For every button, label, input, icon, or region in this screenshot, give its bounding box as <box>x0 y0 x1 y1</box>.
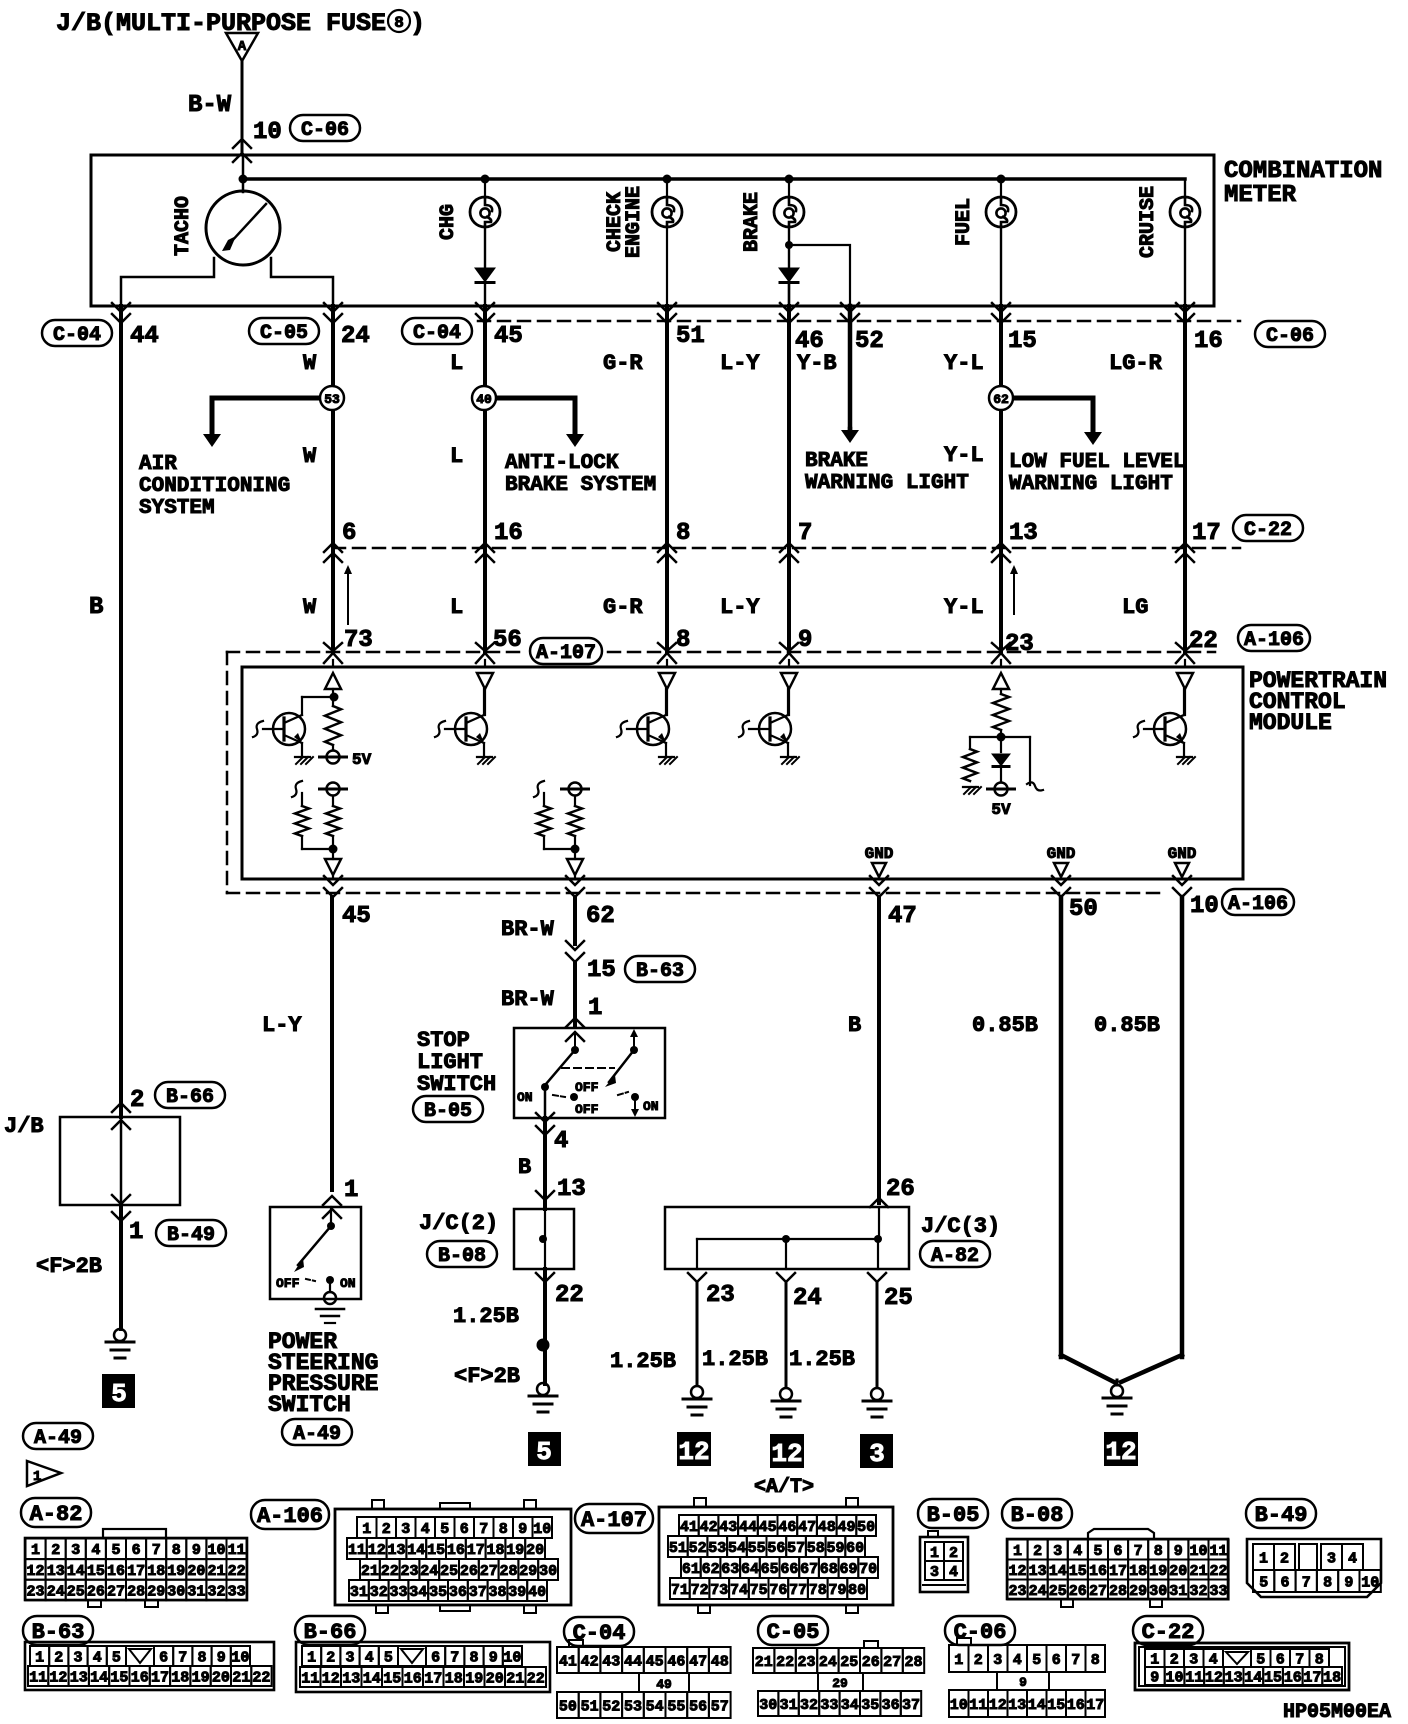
svg-text:44: 44 <box>624 1653 642 1670</box>
svg-text:65: 65 <box>761 1561 779 1578</box>
svg-text:ENGINE: ENGINE <box>623 186 646 258</box>
node bus-CHECK <box>663 175 672 184</box>
svg-text:48: 48 <box>711 1653 729 1670</box>
PCM bottom crossing pin 50 <box>1052 876 1070 885</box>
svg-text:16: 16 <box>1284 1669 1302 1686</box>
svg-text:1.25B: 1.25B <box>610 1349 676 1374</box>
svg-text:74: 74 <box>730 1582 748 1599</box>
svg-text:52: 52 <box>689 1540 707 1557</box>
svg-text:CONDITIONING: CONDITIONING <box>139 475 290 498</box>
svg-text:7: 7 <box>450 1649 459 1666</box>
svg-text:35: 35 <box>429 1584 447 1601</box>
svg-text:18: 18 <box>445 1670 463 1687</box>
svg-text:Y-B: Y-B <box>797 351 837 376</box>
svg-text:4: 4 <box>1013 1652 1022 1669</box>
svg-text:9: 9 <box>1150 1669 1159 1686</box>
svg-text:25: 25 <box>440 1563 458 1580</box>
svg-text:L: L <box>450 351 463 376</box>
transistor Q5 <box>1154 713 1186 745</box>
svg-text:B: B <box>518 1155 531 1180</box>
svg-text:60: 60 <box>846 1540 864 1557</box>
svg-text:50: 50 <box>1069 896 1098 923</box>
svg-text:26: 26 <box>460 1563 478 1580</box>
svg-text:8: 8 <box>1315 1651 1324 1668</box>
svg-text:16: 16 <box>447 1542 465 1559</box>
svg-text:22: 22 <box>776 1654 794 1671</box>
svg-text:C-06: C-06 <box>301 119 349 142</box>
svg-text:ANTI-LOCK: ANTI-LOCK <box>505 452 619 475</box>
connector C-04 pinout <box>569 1640 583 1647</box>
ground id box 5 JC2 <box>528 1432 561 1466</box>
svg-text:A-106: A-106 <box>1244 629 1304 652</box>
svg-text:ON: ON <box>340 1276 356 1291</box>
0.85B merge <box>1061 1355 1114 1382</box>
ground id box 12 a <box>677 1432 711 1466</box>
PCM input 9 triangle <box>788 660 790 666</box>
svg-text:G-R: G-R <box>603 351 643 376</box>
svg-text:55: 55 <box>667 1698 685 1715</box>
wire FUEL lamp down <box>1000 227 1002 306</box>
svg-text:15: 15 <box>1047 1697 1065 1714</box>
svg-text:19: 19 <box>192 1669 210 1686</box>
svg-text:10: 10 <box>503 1649 521 1666</box>
capsule A-107 <box>530 638 602 664</box>
svg-text:3: 3 <box>345 1649 354 1666</box>
svg-text:25: 25 <box>67 1583 85 1600</box>
connector crossing pin 52 <box>841 303 859 312</box>
switch ground <box>324 1292 336 1304</box>
svg-text:0.85B: 0.85B <box>1094 1013 1160 1038</box>
svg-text:10: 10 <box>1189 1543 1207 1560</box>
svg-text:1.25B: 1.25B <box>789 1347 855 1372</box>
svg-text:13: 13 <box>47 1563 65 1580</box>
svg-text:B-05: B-05 <box>424 1100 472 1123</box>
svg-text:J/C(3): J/C(3) <box>921 1214 1000 1239</box>
svg-text:LOW FUEL LEVEL: LOW FUEL LEVEL <box>1009 451 1185 474</box>
svg-text:62: 62 <box>586 903 615 930</box>
svg-text:45: 45 <box>646 1653 664 1670</box>
ground 24 <box>780 1388 792 1400</box>
svg-text:34: 34 <box>409 1584 427 1601</box>
stop light switch right contact <box>630 1029 638 1037</box>
svg-text:21: 21 <box>755 1654 773 1671</box>
svg-text:43: 43 <box>719 1519 737 1536</box>
A-106/A-107 crossing pin 56 <box>476 643 494 651</box>
indicator lamp CHECK <box>666 179 668 197</box>
svg-text:5: 5 <box>536 1437 552 1467</box>
svg-text:GND: GND <box>1168 845 1197 863</box>
svg-text:48: 48 <box>818 1519 836 1536</box>
svg-text:1: 1 <box>930 1545 939 1562</box>
svg-text:10: 10 <box>207 1542 225 1559</box>
connector crossing pin 15 <box>992 303 1010 312</box>
crossing pin 23 JC3 <box>688 1273 706 1282</box>
svg-text:9: 9 <box>217 1649 226 1666</box>
stop light switch left contact <box>574 1032 576 1046</box>
svg-text:28: 28 <box>904 1654 922 1671</box>
svg-text:22: 22 <box>252 1669 270 1686</box>
svg-text:W: W <box>303 595 317 620</box>
C-22 crossing pin 17 <box>1176 543 1194 552</box>
svg-text:67: 67 <box>800 1561 818 1578</box>
fuse A symbol <box>226 33 258 61</box>
ground id box 12 right <box>1104 1432 1138 1466</box>
svg-text:28: 28 <box>127 1583 145 1600</box>
svg-text:1: 1 <box>1013 1543 1022 1560</box>
svg-text:1: 1 <box>362 1521 371 1538</box>
svg-text:32: 32 <box>1189 1583 1207 1600</box>
svg-text:15: 15 <box>427 1542 445 1559</box>
svg-text:6: 6 <box>1113 1543 1122 1560</box>
svg-text:22: 22 <box>527 1670 545 1687</box>
svg-text:34: 34 <box>841 1697 859 1714</box>
svg-text:56: 56 <box>767 1540 785 1557</box>
svg-text:19: 19 <box>167 1563 185 1580</box>
svg-text:36: 36 <box>882 1697 900 1714</box>
connector C-06 pinout <box>957 1638 971 1645</box>
svg-text:12: 12 <box>678 1437 709 1467</box>
svg-text:11: 11 <box>348 1542 366 1559</box>
svg-text:28: 28 <box>1109 1583 1127 1600</box>
svg-text:B-49: B-49 <box>167 1224 215 1247</box>
svg-text:62: 62 <box>702 1561 720 1578</box>
svg-text:J/B: J/B <box>4 1114 44 1139</box>
svg-text:54: 54 <box>646 1698 664 1715</box>
C-22 crossing pin 8 <box>658 543 676 552</box>
svg-text:9: 9 <box>489 1649 498 1666</box>
capsule C-04 bottom-section <box>564 1617 634 1646</box>
up arrow at wire Y-L <box>1013 569 1015 614</box>
svg-text:21: 21 <box>361 1563 379 1580</box>
svg-text:5: 5 <box>440 1521 449 1538</box>
wire BR-W lower <box>573 962 577 1026</box>
svg-text:C-05: C-05 <box>260 322 308 345</box>
svg-text:7: 7 <box>1071 1652 1080 1669</box>
diode under BRAKE <box>778 268 800 283</box>
svg-text:G-R: G-R <box>603 595 643 620</box>
C-22 crossing pin 13 <box>992 543 1010 552</box>
svg-text:30: 30 <box>167 1583 185 1600</box>
crossing pin 2 B-66 <box>112 1103 130 1112</box>
svg-text:45: 45 <box>494 323 523 350</box>
svg-text:56: 56 <box>689 1698 707 1715</box>
svg-text:14: 14 <box>407 1542 425 1559</box>
svg-text:42: 42 <box>700 1519 718 1536</box>
crossing pin 4 <box>536 1113 554 1122</box>
svg-text:71: 71 <box>671 1582 689 1599</box>
svg-text:4: 4 <box>1348 1550 1357 1567</box>
svg-text:5: 5 <box>111 1542 120 1559</box>
wire CHG lamp to diode <box>484 227 486 267</box>
svg-text:5: 5 <box>111 1379 127 1409</box>
svg-text:18: 18 <box>171 1669 189 1686</box>
svg-text:53: 53 <box>624 1698 642 1715</box>
svg-text:12: 12 <box>26 1563 44 1580</box>
svg-text:12: 12 <box>49 1669 67 1686</box>
node out62 <box>571 845 580 854</box>
connector crossing pin 44 <box>112 303 130 312</box>
C-22 crossing pin 6 <box>324 543 342 552</box>
svg-text:3: 3 <box>71 1542 80 1559</box>
svg-text:26: 26 <box>1069 1583 1087 1600</box>
svg-text:L-Y: L-Y <box>720 351 760 376</box>
junction 62 to low fuel warning <box>1013 396 1093 401</box>
wires 1.25B JC3 <box>696 1282 699 1384</box>
svg-text:A-107: A-107 <box>581 1508 647 1533</box>
svg-text:16: 16 <box>131 1669 149 1686</box>
connector B-66 pinout <box>296 1642 550 1692</box>
5V supply pin23 <box>1000 767 1002 782</box>
svg-text:1: 1 <box>129 1219 143 1246</box>
svg-text:ON: ON <box>643 1099 659 1114</box>
svg-text:12: 12 <box>771 1439 802 1469</box>
svg-text:22: 22 <box>1189 628 1218 655</box>
svg-text:LG: LG <box>1122 595 1148 620</box>
svg-text:Y-L: Y-L <box>944 443 984 468</box>
svg-text:AIR: AIR <box>139 453 177 476</box>
svg-text:22: 22 <box>555 1282 584 1309</box>
svg-text:8: 8 <box>197 1649 206 1666</box>
svg-text:25: 25 <box>840 1654 858 1671</box>
svg-text:3: 3 <box>993 1652 1002 1669</box>
svg-text:L-Y: L-Y <box>262 1013 302 1038</box>
svg-text:BR-W: BR-W <box>501 917 555 942</box>
svg-text:6: 6 <box>1052 1652 1061 1669</box>
svg-text:47: 47 <box>689 1653 707 1670</box>
svg-text:10: 10 <box>1165 1669 1183 1686</box>
connector crossing pin 24 <box>324 303 342 312</box>
svg-text:13: 13 <box>70 1669 88 1686</box>
svg-text:52: 52 <box>602 1698 620 1715</box>
tacho left leg wire <box>121 258 214 306</box>
svg-text:12: 12 <box>1008 1563 1026 1580</box>
resistor R3 to ground <box>970 736 1001 738</box>
svg-text:5V: 5V <box>991 801 1011 819</box>
svg-text:24: 24 <box>47 1583 65 1600</box>
tachometer TACHO <box>242 155 245 192</box>
svg-text:31: 31 <box>780 1697 798 1714</box>
svg-text:36: 36 <box>449 1584 467 1601</box>
connector dashed line C-22 <box>333 547 1240 550</box>
ground JC2 <box>537 1383 549 1395</box>
svg-text:1.25B: 1.25B <box>702 1347 768 1372</box>
svg-text:32: 32 <box>207 1583 225 1600</box>
svg-text:B-49: B-49 <box>1255 1503 1308 1528</box>
svg-text:SWITCH: SWITCH <box>417 1072 496 1097</box>
svg-text:76: 76 <box>769 1582 787 1599</box>
svg-text:21: 21 <box>232 1669 250 1686</box>
svg-text:24: 24 <box>819 1654 837 1671</box>
connector B-63 pinout <box>25 1642 274 1690</box>
svg-text:C-04: C-04 <box>573 1621 626 1646</box>
capsule C-04 second <box>402 318 472 344</box>
svg-text:10: 10 <box>1190 893 1219 920</box>
svg-text:18: 18 <box>1129 1563 1147 1580</box>
svg-text:BRAKE: BRAKE <box>805 450 868 473</box>
connector C-05 pinout <box>864 1641 878 1648</box>
svg-text:54: 54 <box>728 1540 746 1557</box>
connector A-106 pinout <box>372 1500 384 1509</box>
svg-text:49: 49 <box>656 1677 672 1692</box>
svg-text:LG-R: LG-R <box>1109 351 1163 376</box>
crossing pin 1 power steering <box>323 1196 341 1205</box>
svg-text:72: 72 <box>691 1582 709 1599</box>
connector A-107 pinout <box>694 1498 706 1507</box>
svg-text:2: 2 <box>54 1649 63 1666</box>
svg-text:14: 14 <box>363 1670 381 1687</box>
svg-text:A-106: A-106 <box>257 1504 323 1529</box>
svg-text:C-06: C-06 <box>1266 325 1314 348</box>
svg-text:15: 15 <box>1008 328 1037 355</box>
svg-text:38: 38 <box>488 1584 506 1601</box>
capsule B-05 switch <box>413 1096 483 1122</box>
svg-text:8: 8 <box>676 520 690 547</box>
svg-text:50: 50 <box>857 1519 875 1536</box>
connector crossing 10 C-06 <box>233 139 251 148</box>
svg-text:8: 8 <box>172 1542 181 1559</box>
resistor R1 to 5V <box>332 701 334 706</box>
crossing 15 B-63 <box>566 941 584 950</box>
5V pull-up group out45 <box>292 781 302 797</box>
svg-text:32: 32 <box>370 1584 388 1601</box>
svg-text:20: 20 <box>1169 1563 1187 1580</box>
svg-text:11: 11 <box>301 1670 319 1687</box>
svg-text:3: 3 <box>73 1649 82 1666</box>
svg-text:28: 28 <box>499 1563 517 1580</box>
svg-text:41: 41 <box>559 1653 577 1670</box>
svg-text:53: 53 <box>324 392 340 407</box>
svg-text:75: 75 <box>750 1582 768 1599</box>
wire F2B to ground <box>119 1205 123 1329</box>
svg-text:22: 22 <box>228 1563 246 1580</box>
svg-text:2: 2 <box>949 1545 958 1562</box>
svg-text:OFF: OFF <box>276 1276 300 1291</box>
svg-text:14: 14 <box>90 1669 108 1686</box>
svg-text:SYSTEM: SYSTEM <box>139 497 215 520</box>
svg-text:10: 10 <box>533 1521 551 1538</box>
svg-text:9: 9 <box>192 1542 201 1559</box>
svg-text:4: 4 <box>93 1649 102 1666</box>
svg-text:BRAKE: BRAKE <box>741 192 764 252</box>
svg-text:<F>2B: <F>2B <box>454 1364 520 1389</box>
svg-text:78: 78 <box>809 1582 827 1599</box>
crossing pin 25 JC3 <box>868 1273 886 1282</box>
svg-text:11: 11 <box>969 1697 987 1714</box>
svg-text:A: A <box>238 39 247 55</box>
svg-text:12: 12 <box>368 1542 386 1559</box>
svg-text:17: 17 <box>1303 1669 1321 1686</box>
connector crossing pin 51 <box>658 303 676 312</box>
capsule B-63 bottom-section <box>23 1616 93 1645</box>
transistor Q3 <box>637 713 669 745</box>
junction connector J/C(2) <box>536 1191 554 1200</box>
capsule A-106 bottom <box>1222 889 1294 915</box>
wire B stoplight <box>543 1118 547 1209</box>
svg-text:16: 16 <box>1089 1563 1107 1580</box>
svg-text:53: 53 <box>708 1540 726 1557</box>
svg-text:B-08: B-08 <box>438 1245 486 1268</box>
svg-text:6: 6 <box>1280 1574 1289 1591</box>
capsule C-05 <box>249 318 319 344</box>
svg-text:31: 31 <box>187 1583 205 1600</box>
node bus-tacho <box>239 175 248 184</box>
svg-text:<F>2B: <F>2B <box>36 1254 102 1279</box>
junction 40 to ABS <box>496 396 575 401</box>
wire 0.85B left <box>1059 897 1064 1357</box>
svg-text:4: 4 <box>421 1521 430 1538</box>
svg-text:23: 23 <box>400 1563 418 1580</box>
svg-text:69: 69 <box>839 1561 857 1578</box>
svg-text:A-106: A-106 <box>1228 893 1288 916</box>
connector C-22 pinout <box>1135 1643 1349 1690</box>
capsule C-22 bottom-section <box>1133 1616 1203 1645</box>
svg-text:18: 18 <box>486 1542 504 1559</box>
svg-text:46: 46 <box>778 1519 796 1536</box>
svg-text:16: 16 <box>107 1563 125 1580</box>
A-106/A-107 crossing pin 8 <box>658 643 676 651</box>
svg-text:4: 4 <box>91 1542 100 1559</box>
svg-text:22: 22 <box>381 1563 399 1580</box>
svg-text:9: 9 <box>798 627 812 654</box>
svg-text:16: 16 <box>1067 1697 1085 1714</box>
svg-text:11: 11 <box>1209 1543 1227 1560</box>
transistor Q1 <box>273 713 305 745</box>
svg-text:19: 19 <box>1149 1563 1167 1580</box>
svg-text:62: 62 <box>993 392 1009 407</box>
PCM input 73 triangle <box>332 660 334 666</box>
up arrow at wire W <box>347 569 349 624</box>
svg-text:17: 17 <box>151 1669 169 1686</box>
svg-text:2: 2 <box>326 1649 335 1666</box>
svg-text:19: 19 <box>506 1542 524 1559</box>
svg-text:14: 14 <box>67 1563 85 1580</box>
svg-text:5: 5 <box>1093 1543 1102 1560</box>
svg-text:8: 8 <box>394 14 404 32</box>
svg-text:31: 31 <box>1169 1583 1187 1600</box>
svg-text:12: 12 <box>1205 1669 1223 1686</box>
wire 1.25B JC2 <box>543 1269 547 1384</box>
C-22 crossing pin 16 <box>476 543 494 552</box>
wire B-W from fuse <box>241 61 244 155</box>
svg-text:15: 15 <box>1069 1563 1087 1580</box>
junction block J/B box <box>60 1117 180 1205</box>
svg-text:40: 40 <box>528 1584 546 1601</box>
ground 25 <box>871 1388 883 1400</box>
svg-text:): ) <box>410 9 425 38</box>
combination meter box <box>91 155 1214 306</box>
svg-text:WARNING LIGHT: WARNING LIGHT <box>805 472 969 495</box>
svg-text:6: 6 <box>342 520 356 547</box>
svg-text:BR-W: BR-W <box>501 987 555 1012</box>
svg-text:COMBINATION: COMBINATION <box>1224 158 1382 185</box>
svg-text:12: 12 <box>322 1670 340 1687</box>
svg-text:C-04: C-04 <box>53 324 101 347</box>
svg-text:15: 15 <box>1264 1669 1282 1686</box>
svg-text:8: 8 <box>676 627 690 654</box>
svg-text:11: 11 <box>228 1542 246 1559</box>
svg-text:49: 49 <box>837 1519 855 1536</box>
junction connector J/C(3) <box>665 1207 909 1269</box>
svg-text:68: 68 <box>820 1561 838 1578</box>
svg-text:29: 29 <box>519 1563 537 1580</box>
svg-text:7: 7 <box>479 1521 488 1538</box>
svg-text:26: 26 <box>87 1583 105 1600</box>
svg-text:Y-L: Y-L <box>944 595 984 620</box>
capsule B-66 bottom-section <box>295 1616 365 1645</box>
svg-text:TACHO: TACHO <box>172 196 195 256</box>
svg-text:77: 77 <box>789 1582 807 1599</box>
connector dashed line C-04 C-06 <box>478 320 1240 323</box>
